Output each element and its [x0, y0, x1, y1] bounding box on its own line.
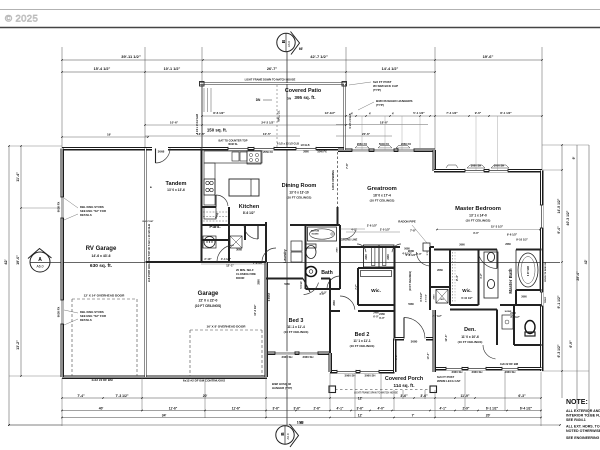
svg-text:4'-2": 4'-2": [480, 272, 483, 278]
svg-text:20': 20': [203, 394, 208, 398]
svg-text:6'-3 1/2": 6'-3 1/2": [557, 344, 561, 357]
svg-text:40'-3 1/2": 40'-3 1/2": [566, 210, 570, 225]
svg-text:RV Garage: RV Garage: [86, 246, 117, 252]
svg-text:Tandem: Tandem: [165, 181, 186, 187]
svg-text:2660: 2660: [437, 268, 443, 272]
svg-text:A6.0: A6.0: [286, 433, 290, 440]
svg-text:10'-5": 10'-5": [263, 132, 272, 136]
svg-text:(10 FT CEILINGS): (10 FT CEILINGS): [409, 271, 412, 291]
patio wall centerline dashed: [276, 85, 278, 147]
svg-text:42': 42': [584, 260, 588, 265]
kitchen upper counter: [204, 151, 262, 163]
svg-text:25'-4": 25'-4": [576, 271, 580, 281]
svg-text:3'-6": 3'-6": [273, 407, 280, 411]
master south wall: [434, 249, 497, 251]
svg-text:11' 1 x 11'-1: 11' 1 x 11'-1: [353, 339, 371, 343]
interior dim row y136: [145, 135, 300, 137]
exterior wall: right east wall: [540, 171, 544, 372]
svg-text:12'-1/2": 12'-1/2": [325, 111, 336, 115]
washer: [204, 237, 215, 248]
svg-text:20': 20': [486, 414, 491, 418]
svg-text:3'-6": 3'-6": [400, 394, 408, 398]
svg-text:RxR POST: RxR POST: [143, 221, 155, 223]
svg-text:7': 7': [412, 414, 415, 418]
top dim line 2: [62, 71, 435, 73]
kitchen west counter: [204, 163, 215, 205]
svg-text:6'-0": 6'-0": [379, 316, 385, 320]
svg-text:SOAKE: SOAKE: [311, 233, 319, 236]
svg-text:2'-6 1/2": 2'-6 1/2": [367, 224, 378, 228]
svg-text:6 1/2 x 13 1/2 GLB: 6 1/2 x 13 1/2 GLB: [277, 142, 299, 146]
svg-text:3060 SH: 3060 SH: [365, 374, 376, 378]
svg-text:2550 FX: 2550 FX: [263, 150, 273, 154]
svg-text:RADON PIPE: RADON PIPE: [398, 220, 416, 224]
svg-text:12'-3": 12'-3": [444, 334, 448, 342]
svg-text:ALL EXT. HDRS. TO BE: ALL EXT. HDRS. TO BE: [566, 425, 600, 429]
svg-text:DOOR: DOOR: [236, 276, 244, 280]
porch recess walls: [393, 339, 397, 373]
window trapezoid marks master windows: [467, 165, 485, 168]
svg-text:3080: 3080: [411, 340, 418, 344]
svg-text:ALL EXTERIOR AND: ALL EXTERIOR AND: [566, 409, 600, 413]
kitchen-pantry walls: [202, 206, 217, 208]
bottom dim row 4 overall: [9, 424, 560, 426]
svg-text:9038 FX: 9038 FX: [57, 307, 61, 318]
svg-text:6'-1 1/2": 6'-1 1/2": [486, 407, 499, 411]
wall tandem / kitchen divider: [201, 149, 203, 263]
svg-text:1040 FX: 1040 FX: [317, 151, 327, 154]
svg-text:6 FT SPA: 6 FT SPA: [527, 266, 530, 277]
svg-text:4'-4 1/2": 4'-4 1/2": [221, 257, 232, 261]
svg-text:4'-7 1/2": 4'-7 1/2": [432, 315, 442, 318]
svg-text:2460: 2460: [379, 312, 385, 316]
wic shelf: [361, 271, 392, 277]
master bath vanity: [484, 252, 498, 298]
kitchen range: [247, 151, 261, 164]
svg-text:66': 66': [299, 47, 304, 51]
title band top rule: [0, 9, 600, 11]
svg-text:9038 FX: 9038 FX: [57, 202, 61, 213]
svg-text:Bed 3: Bed 3: [289, 318, 304, 324]
svg-text:W/SIM LECA CAP: W/SIM LECA CAP: [437, 379, 460, 383]
shower: [502, 315, 513, 329]
section marker B bottom: [276, 424, 299, 447]
svg-text:NOTED OTHERWISE: NOTED OTHERWISE: [566, 429, 600, 433]
svg-text:15'-4 1/2": 15'-4 1/2": [94, 67, 111, 71]
svg-text:3'-6": 3'-6": [420, 394, 428, 398]
svg-text:4x8 #2 DF BM: 4x8 #2 DF BM: [500, 362, 519, 366]
svg-text:40': 40': [99, 407, 104, 411]
svg-text:4'-0": 4'-0": [319, 293, 325, 296]
svg-text:2880: 2880: [258, 279, 261, 285]
spa tub: [516, 250, 540, 290]
svg-text:SEE R404.1: SEE R404.1: [566, 418, 586, 422]
svg-text:13' 0 x 13'-6: 13' 0 x 13'-6: [167, 188, 185, 192]
interior dim row y116: [202, 115, 542, 117]
svg-text:39'-11 1/2": 39'-11 1/2": [121, 54, 141, 59]
svg-text:9 1/2 x 9 GLB: 9 1/2 x 9 GLB: [349, 113, 352, 128]
svg-text:10'-3 1/2": 10'-3 1/2": [253, 304, 257, 316]
svg-text:5080: 5080: [284, 283, 290, 286]
porch post left: [329, 386, 336, 393]
kitchen island: [229, 179, 259, 196]
svg-text:1'-8 1/2": 1'-8 1/2": [253, 261, 264, 265]
svg-text:A6.0: A6.0: [37, 265, 44, 269]
svg-text:9'-4": 9'-4": [557, 226, 561, 234]
right dim lines: [561, 145, 563, 398]
svg-text:2660: 2660: [333, 300, 336, 306]
svg-text:2680: 2680: [337, 247, 339, 253]
svg-text:3060 SH: 3060 SH: [303, 355, 314, 359]
svg-text:630 sq. ft.: 630 sq. ft.: [90, 263, 112, 269]
svg-text:9'-6": 9'-6": [475, 111, 482, 115]
bed2 wic walls: [357, 268, 359, 305]
svg-text:4'-1": 4'-1": [440, 407, 447, 411]
svg-text:11'-6": 11'-6": [232, 407, 241, 411]
bath tub: [308, 227, 337, 241]
svg-text:2660: 2660: [521, 296, 527, 299]
den walls: [450, 309, 497, 311]
svg-text:5080: 5080: [408, 303, 414, 306]
svg-text:6'-10 1/2": 6'-10 1/2": [461, 296, 473, 300]
svg-text:4'-8 1/2": 4'-8 1/2": [402, 253, 412, 256]
svg-text:150 sq. ft.: 150 sq. ft.: [207, 128, 227, 133]
svg-text:12': 12': [358, 397, 363, 401]
porch post dashed line: [335, 389, 430, 391]
svg-text:7'-3 1/2": 7'-3 1/2": [116, 394, 129, 398]
wall jog greatroom-master: [432, 150, 436, 171]
exterior wall: bed2 south: [330, 370, 395, 374]
svg-text:13'-2": 13'-2": [16, 340, 20, 350]
svg-text:2660: 2660: [459, 244, 465, 247]
svg-text:ROOD TK DISK/JM: ROOD TK DISK/JM: [545, 262, 547, 282]
hall entry arc: [343, 230, 356, 239]
svg-text:3'-7 1/2": 3'-7 1/2": [510, 316, 520, 319]
dining 12ft opening: [337, 152, 339, 207]
svg-text:A6.0: A6.0: [287, 41, 291, 48]
svg-text:2x6 PONY WALL ON TOP OF 5 1/2: 2x6 PONY WALL ON TOP OF 5 1/2 x 13 1/2 G…: [147, 224, 151, 282]
fridge: [204, 207, 216, 219]
svg-text:Laundry: Laundry: [283, 249, 287, 262]
svg-text:(TYP): (TYP): [376, 103, 384, 107]
svg-text:18'-6": 18'-6": [380, 121, 389, 125]
svg-text:NOTE:: NOTE:: [566, 399, 588, 406]
svg-text:5-5 1/2: 5-5 1/2: [301, 281, 303, 289]
interior dim row y125: [145, 124, 346, 126]
pantry door: [216, 195, 228, 206]
svg-text:DN: DN: [256, 98, 261, 102]
svg-text:6'-9": 6'-9": [569, 340, 573, 348]
wc walls: [516, 289, 542, 291]
svg-text:2'-8 1/2": 2'-8 1/2": [426, 294, 428, 302]
svg-text:6 POST: 6 POST: [268, 292, 271, 301]
svg-text:Master Bedroom: Master Bedroom: [455, 206, 501, 212]
svg-text:© 2025: © 2025: [5, 14, 38, 25]
svg-text:LIGHT FRAME SPAN TO MATCH HOUS: LIGHT FRAME SPAN TO MATCH HOUSE: [354, 392, 398, 395]
svg-text:2'-0 1/2": 2'-0 1/2": [380, 228, 391, 232]
svg-text:3068: 3068: [158, 150, 165, 154]
svg-text:12000 OPENING: 12000 OPENING: [331, 170, 335, 190]
bed2 north wall: [330, 310, 340, 312]
section line B vertical: [286, 52, 288, 425]
svg-text:Greatroom: Greatroom: [367, 186, 397, 192]
svg-text:Master Bath: Master Bath: [508, 268, 513, 293]
window ext lines to dim rows: [361, 116, 363, 150]
svg-text:6'-0": 6'-0": [373, 316, 379, 319]
svg-text:5'-1 1/2": 5'-1 1/2": [413, 111, 425, 115]
svg-text:42': 42': [4, 259, 8, 264]
exterior wall: rv garage west: [60, 149, 64, 378]
mud room walls: [228, 240, 230, 262]
garage overhead door dashed: [189, 330, 191, 376]
svg-text:(10 FT CEILINGS): (10 FT CEILINGS): [350, 344, 375, 348]
top dim extension lines: [61, 47, 63, 148]
svg-text:4x12 #2 DF BM: 4x12 #2 DF BM: [91, 378, 113, 382]
svg-text:12': 12': [358, 414, 363, 418]
svg-text:6x12 #2 DF BM CONTINUOUS: 6x12 #2 DF BM CONTINUOUS: [183, 379, 225, 383]
svg-text:(10 FT CEILINGS): (10 FT CEILINGS): [284, 330, 309, 334]
svg-text:19': 19': [107, 133, 111, 137]
svg-text:7'-8": 7'-8": [410, 229, 417, 233]
patio east wall: [343, 84, 345, 151]
svg-text:(10 FT CEILINGS): (10 FT CEILINGS): [370, 199, 395, 203]
porch-den west wall: [432, 310, 436, 372]
hall door arcs: [244, 225, 258, 239]
svg-text:9'-10 1/2": 9'-10 1/2": [516, 238, 529, 242]
svg-text:6'-4 1/2": 6'-4 1/2": [520, 407, 533, 411]
svg-text:WALL C/L: WALL C/L: [278, 110, 281, 122]
svg-text:BAT TO COUNTER TOP: BAT TO COUNTER TOP: [219, 139, 248, 143]
svg-text:2'-6": 2'-6": [314, 407, 321, 411]
svg-text:4': 4': [369, 112, 372, 116]
svg-text:11'-6": 11'-6": [169, 407, 178, 411]
svg-text:7'-4 1/2": 7'-4 1/2": [446, 111, 458, 115]
greatroom south opening: [365, 246, 400, 248]
svg-text:20'-6": 20'-6": [362, 132, 371, 136]
svg-text:2660: 2660: [505, 243, 511, 246]
master interior dim line: [437, 229, 540, 231]
svg-text:26'-7": 26'-7": [267, 67, 278, 71]
bath sink: [306, 267, 317, 277]
svg-text:Wic.: Wic.: [371, 288, 381, 294]
bath toilet: [306, 246, 316, 259]
svg-text:CEILING LINE: CEILING LINE: [341, 239, 358, 242]
svg-text:11'-9": 11'-9": [460, 394, 469, 398]
svg-text:9'-4": 9'-4": [455, 274, 459, 281]
svg-text:24'-2 1/2": 24'-2 1/2": [261, 121, 275, 125]
patio corner posts: [200, 82, 205, 87]
patio steps: [203, 88, 205, 112]
svg-text:22' 0 x 22'-0: 22' 0 x 22'-0: [199, 299, 218, 303]
svg-text:3060 SH: 3060 SH: [282, 355, 293, 359]
svg-text:14'-5 1/2": 14'-5 1/2": [557, 198, 561, 213]
bottom dim row 1: [62, 397, 541, 399]
svg-text:5040 FX: 5040 FX: [379, 142, 389, 146]
svg-text:114 sq. ft.: 114 sq. ft.: [394, 383, 415, 388]
wall jog bed3-bed2: [328, 353, 332, 372]
svg-text:100': 100': [297, 421, 304, 425]
cooktop: [204, 179, 215, 195]
svg-text:8'-6 1/2": 8'-6 1/2": [243, 211, 256, 215]
patio west edge: [201, 84, 203, 149]
dryer: [230, 236, 242, 248]
porch post right: [430, 386, 437, 393]
svg-text:19'-6": 19'-6": [483, 54, 494, 59]
svg-text:8'-1 1/2": 8'-1 1/2": [500, 111, 512, 115]
svg-text:11' 0 x 10'-6: 11' 0 x 10'-6: [461, 335, 479, 339]
svg-text:Kitchen: Kitchen: [239, 204, 260, 210]
top dim line 39-11, 42-7, 19-6: [62, 59, 542, 61]
svg-text:3048 SL: 3048 SL: [228, 142, 238, 146]
exterior wall: tandem top: [62, 147, 152, 151]
bed3 north wall: [266, 278, 303, 280]
front door 3080: [404, 318, 425, 339]
svg-text:4': 4': [392, 112, 395, 116]
svg-text:(10 FT CEILINGS): (10 FT CEILINGS): [458, 340, 483, 344]
svg-text:3060 SH: 3060 SH: [452, 370, 463, 374]
svg-text:2'-10": 2'-10": [204, 257, 212, 261]
pantry shelves dashed: [203, 211, 228, 213]
svg-text:13' 1 x 14'-0: 13' 1 x 14'-0: [469, 214, 487, 218]
svg-text:3060 SH: 3060 SH: [494, 164, 505, 168]
hall/stair walls center: [340, 246, 365, 248]
svg-text:9'-1 1/2": 9'-1 1/2": [557, 295, 561, 308]
svg-text:WH: WH: [440, 299, 444, 301]
svg-text:(TYP): (TYP): [373, 88, 381, 92]
svg-text:4'-0": 4'-0": [378, 407, 385, 411]
svg-text:2460: 2460: [373, 312, 379, 315]
svg-text:Covered Patio: Covered Patio: [285, 88, 322, 94]
svg-text:395 sq. ft.: 395 sq. ft.: [294, 95, 315, 100]
svg-text:Den.: Den.: [464, 327, 476, 333]
svg-text:3060 SH: 3060 SH: [505, 370, 516, 374]
svg-text:Bed 2: Bed 2: [355, 332, 370, 338]
exterior wall: garage south: [62, 375, 267, 379]
svg-text:HANGER (TYP): HANGER (TYP): [272, 386, 292, 390]
bath walls: [305, 225, 307, 289]
svg-text:11'-4": 11'-4": [16, 172, 20, 182]
svg-text:BATTUB: BATTUB: [311, 230, 320, 233]
svg-text:15'-3 1/2": 15'-3 1/2": [491, 225, 504, 229]
svg-text:Bath: Bath: [321, 270, 333, 276]
svg-text:3'-6": 3'-6": [357, 407, 364, 411]
svg-text:3068: 3068: [236, 248, 242, 252]
svg-text:(10 FT CEILINGS): (10 FT CEILINGS): [195, 304, 221, 308]
svg-text:Garage: Garage: [198, 291, 219, 297]
svg-text:11'-1 x 11'-4: 11'-1 x 11'-4: [287, 325, 305, 329]
svg-text:7'-8": 7'-8": [345, 162, 349, 169]
svg-text:3'-0": 3'-0": [395, 353, 398, 359]
exterior wall: kitchen-dining north: [202, 147, 345, 151]
rv overhead door dashed: [71, 299, 73, 376]
svg-text:Covered Porch: Covered Porch: [385, 376, 423, 382]
svg-text:LIGHT FRAME DOWN TO MATCH HOUS: LIGHT FRAME DOWN TO MATCH HOUSE: [245, 78, 296, 82]
svg-text:13'-3": 13'-3": [427, 352, 430, 360]
svg-text:2460: 2460: [365, 254, 368, 260]
left dim lines: [8, 146, 10, 425]
linen closets pair: [364, 245, 395, 267]
svg-text:INTERIOR TO BE FLUSH: INTERIOR TO BE FLUSH: [566, 414, 600, 418]
wall rv garage / tandem divider: [144, 149, 146, 378]
svg-text:2408: 2408: [510, 312, 516, 315]
svg-text:4'-1": 4'-1": [337, 407, 344, 411]
svg-text:9'-6 1/2": 9'-6 1/2": [507, 233, 518, 237]
svg-text:8'-6 1/2": 8'-6 1/2": [213, 111, 225, 115]
laundry walls: [244, 225, 246, 240]
svg-text:2660: 2660: [434, 294, 436, 300]
exterior wall: den/master south: [434, 367, 542, 371]
svg-text:34': 34': [162, 414, 167, 418]
svg-text:DETAILS: DETAILS: [80, 318, 92, 322]
svg-text:Wic.: Wic.: [462, 288, 471, 293]
svg-text:7'-7": 7'-7": [355, 284, 358, 289]
kitchen sink: [232, 152, 239, 161]
svg-text:42'-7 1/2": 42'-7 1/2": [310, 54, 328, 59]
section marker B top: [277, 32, 300, 55]
svg-text:10'-1 1/2": 10'-1 1/2": [164, 67, 181, 71]
wc toilet: [525, 321, 535, 334]
title band bottom rule: [0, 27, 600, 29]
svg-text:2460: 2460: [387, 254, 390, 260]
greatroom window trapezoids: [355, 146, 369, 149]
exterior wall: bed3 south: [267, 351, 330, 355]
master wic walls: [449, 250, 451, 306]
svg-text:3060 SH: 3060 SH: [472, 370, 483, 374]
svg-text:13' 0 x 13'-10: 13' 0 x 13'-10: [289, 191, 309, 195]
bath door: [327, 276, 340, 289]
patio north light-frame wall: [200, 82, 346, 84]
exterior wall: master bedroom north: [434, 169, 542, 173]
bed3 entry door: [303, 279, 310, 293]
dining south wall: [202, 224, 246, 226]
bottom dim extensions: [61, 378, 63, 426]
svg-text:14'-4 1/2": 14'-4 1/2": [382, 67, 399, 71]
garage fire door: [217, 245, 234, 262]
svg-text:A: A: [38, 257, 42, 263]
svg-text:5 1/2 x 13 1/2 GLB: 5 1/2 x 13 1/2 GLB: [196, 114, 199, 135]
svg-text:Dining Room: Dining Room: [282, 183, 317, 189]
bottom dim row 3: [62, 417, 541, 419]
svg-text:SEE ENGINEERING: SEE ENGINEERING: [566, 436, 600, 440]
svg-text:14'-6 x 43'-6: 14'-6 x 43'-6: [92, 254, 111, 258]
svg-text:8'-5 1/2": 8'-5 1/2": [420, 292, 423, 301]
svg-text:6'-3": 6'-3": [518, 394, 526, 398]
svg-text:2'-9": 2'-9": [463, 407, 470, 411]
svg-text:2660: 2660: [303, 151, 309, 154]
svg-text:19'-6": 19'-6": [16, 255, 20, 265]
garage north wall: [146, 261, 235, 263]
door 3068 tandem entry: [156, 149, 171, 164]
svg-text:TRWP: TRWP: [545, 296, 547, 303]
svg-text:16' X 8' OVERHEAD DOOR: 16' X 8' OVERHEAD DOOR: [207, 325, 247, 329]
tandem dim 19ft: [62, 136, 148, 138]
laundry cabinets: [291, 241, 302, 251]
svg-text:(10 FT CEILINGS): (10 FT CEILINGS): [466, 219, 491, 223]
svg-text:DN: DN: [287, 97, 291, 101]
svg-text:12' X 14' OVERHEAD DOOR: 12' X 14' OVERHEAD DOOR: [84, 294, 125, 298]
svg-text:DETAILS: DETAILS: [80, 213, 92, 217]
svg-text:10'-6": 10'-6": [170, 121, 179, 125]
section line A horizontal: [50, 262, 560, 264]
section marker A left: [28, 249, 52, 273]
svg-text:5080: 5080: [404, 248, 410, 251]
svg-text:12'-1": 12'-1": [226, 264, 234, 268]
svg-text:18' 0 x 17'-4: 18' 0 x 17'-4: [373, 194, 391, 198]
svg-text:3'-6": 3'-6": [294, 407, 301, 411]
svg-text:7'-4": 7'-4": [77, 394, 85, 398]
svg-text:9': 9': [572, 156, 576, 159]
bottom dim row 2: [62, 410, 541, 412]
